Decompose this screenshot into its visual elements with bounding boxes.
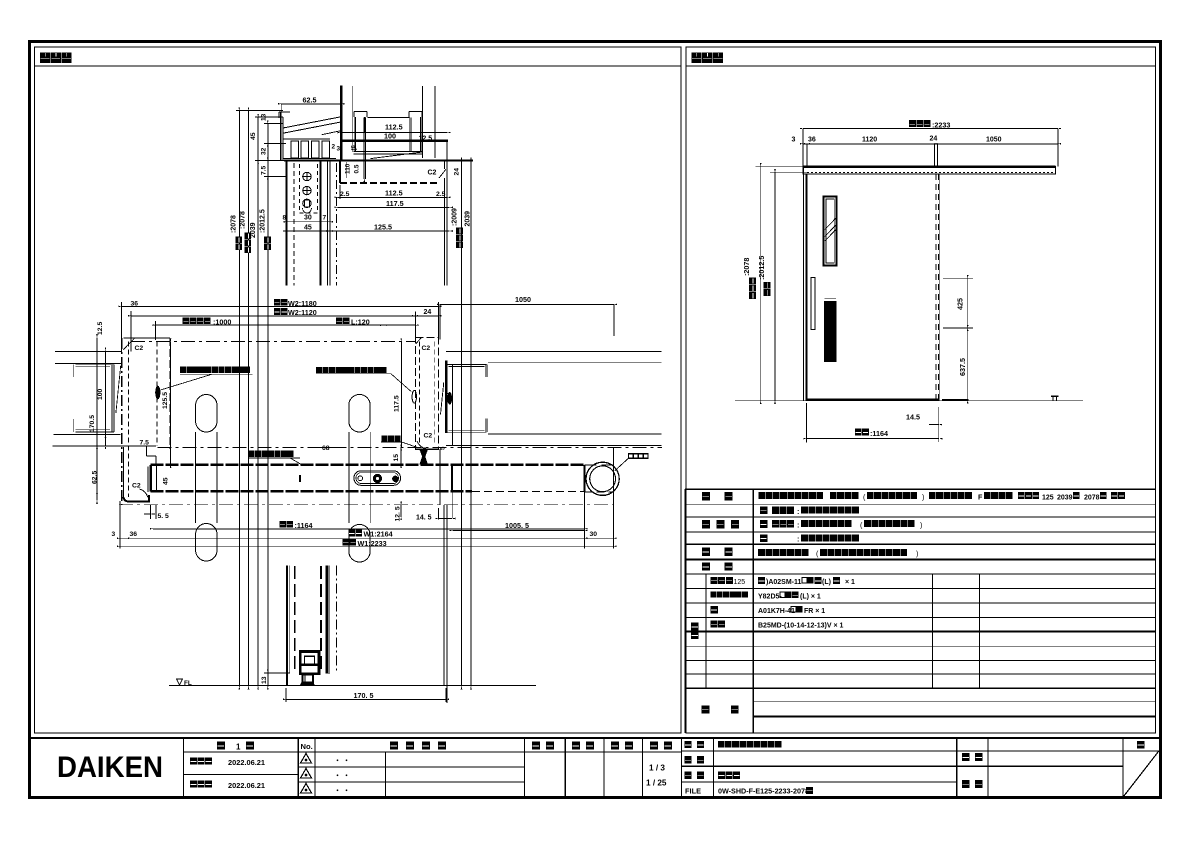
label 把手: [702, 548, 710, 556]
plan door band extension right: [585, 464, 614, 466]
plan bottom extensions: [119, 501, 121, 549]
elevation rail band: [803, 167, 1056, 175]
label 品番 vertical: [691, 623, 699, 631]
title block col dividers: [184, 738, 1124, 797]
plan hanging bolt oval A bottom: [196, 524, 217, 562]
svg-text::2009: :2009: [451, 208, 458, 226]
svg-text:1: 1: [236, 742, 241, 751]
left bracket top section: [280, 112, 282, 161]
svg-text:2022.06.21: 2022.06.21: [228, 758, 265, 767]
plan hanging bolt oval A top: [196, 395, 217, 433]
plan right wall lower: [488, 433, 662, 435]
svg-text::2012.5: :2012.5: [259, 209, 266, 233]
spec table label column divider: [752, 489, 754, 733]
wall stud line pair top: [340, 86, 342, 161]
svg-text:1005. 5: 1005. 5: [505, 521, 529, 530]
svg-text:110: 110: [344, 163, 351, 174]
elevation right dim 637.5: [967, 328, 969, 401]
svg-text:1 / 3: 1 / 3: [649, 764, 665, 773]
svg-text:3: 3: [337, 146, 341, 153]
plan left wall upper: [55, 351, 122, 353]
svg-text::2078: :2078: [742, 258, 751, 276]
plan right wall upper: [446, 350, 662, 352]
elevation dim 1164: [807, 438, 940, 440]
svg-text:1050: 1050: [515, 295, 531, 304]
elevation floor mark TT: [1051, 395, 1058, 397]
plan hanging bolt oval B bottom: [349, 525, 370, 563]
ceiling lines top right: [422, 86, 424, 158]
left panel border (section view): [35, 47, 682, 733]
label 承認: [532, 742, 540, 750]
kaitei sub divider: [385, 752, 387, 797]
svg-text:112.5: 112.5: [385, 123, 403, 132]
plan dashed opening line mid: [158, 447, 663, 449]
svg-text:8: 8: [283, 215, 287, 222]
plan dim opening chain: [156, 324, 416, 326]
svg-text:12.5: 12.5: [97, 322, 104, 335]
plan fix-screw cap label right: [316, 367, 386, 373]
svg-text:36: 36: [808, 137, 816, 144]
plan right C-stud: [448, 364, 487, 366]
top rail mount line thick: [341, 140, 448, 142]
bottom door guide: [300, 652, 319, 674]
plan dim 1164 line: [153, 528, 585, 530]
svg-text:125.5: 125.5: [374, 222, 392, 231]
svg-text:C2: C2: [135, 345, 144, 352]
hanger clip left: [354, 111, 367, 113]
svg-text:12.5: 12.5: [419, 135, 433, 142]
svg-text:B25MD-(10-14-12-13)V × 1: B25MD-(10-14-12-13)V × 1: [758, 622, 844, 629]
label 確認: [572, 742, 580, 750]
svg-text::2012.5: :2012.5: [757, 256, 766, 280]
left dim line 扉高2012.5: [267, 124, 269, 687]
svg-text:13: 13: [261, 676, 268, 684]
plan label 化粧見切: [248, 451, 293, 457]
content 扉パネル: [760, 507, 767, 515]
clip connecting line: [368, 117, 410, 119]
plan left frame rect: [121, 338, 123, 505]
svg-text:No.: No.: [301, 742, 313, 751]
left panel title 断面図: [40, 53, 72, 63]
svg-text::: :: [797, 535, 799, 544]
svg-text:36: 36: [130, 531, 138, 538]
svg-text:(L) × 1: (L) × 1: [800, 593, 821, 600]
label 固定枠125: [711, 577, 733, 584]
plan top extension lines: [120, 302, 122, 352]
label 適用: [702, 562, 710, 570]
wall face line top: [352, 86, 354, 152]
content 枠: [760, 534, 767, 542]
left dim line 全高2078: [238, 111, 240, 687]
svg-text:112.5: 112.5: [385, 188, 403, 197]
plan dim 2164 chain: [131, 537, 584, 539]
elevation door-open bottom line: [942, 399, 969, 401]
svg-text:): ): [920, 520, 922, 529]
hanger clip right: [409, 111, 422, 113]
right panel border (front view): [686, 47, 1156, 733]
plan dim 2233: [120, 545, 614, 547]
plan wall edge line crossing band: [451, 464, 453, 491]
label 件名: [962, 753, 970, 761]
label 制定日 + date: [190, 758, 212, 765]
svg-text:FL: FL: [184, 680, 192, 687]
plan left C-stud: [76, 364, 115, 366]
svg-text:2: 2: [332, 144, 336, 151]
spec table hinban narrow column: [705, 574, 707, 689]
svg-text::1164: :1164: [295, 521, 313, 530]
label 品番: [685, 756, 692, 763]
dim 24 right of box: [461, 161, 463, 183]
svg-text::1164: :1164: [870, 429, 888, 438]
elevation label 扉高2012.5: [764, 282, 771, 296]
elevation label 枠外高2078: [749, 278, 756, 299]
svg-text::2233: :2233: [932, 120, 950, 129]
svg-text:2022.06.21: 2022.06.21: [228, 781, 265, 790]
spec table left border: [684, 489, 686, 733]
rail right cap: [446, 141, 448, 161]
right panel header line: [686, 65, 1156, 67]
content 固定枠125 part: [758, 577, 765, 584]
elevation left dim 2078: [760, 166, 762, 401]
elevation dim 1164 extensions: [806, 403, 808, 443]
svg-text:117.5: 117.5: [393, 395, 400, 412]
screw symbols: [303, 172, 311, 180]
plan label 枠内W2 1120: [274, 308, 288, 315]
svg-text::2078: :2078: [230, 215, 237, 233]
label 名称: [685, 741, 692, 748]
svg-text:7.5: 7.5: [260, 166, 267, 175]
svg-text:7: 7: [323, 215, 327, 222]
svg-text:62.5: 62.5: [303, 95, 317, 104]
left panel header line: [35, 65, 682, 67]
svg-text:1050: 1050: [986, 137, 1002, 144]
floor line FL: [169, 685, 536, 687]
svg-text:(6: (6: [352, 145, 358, 151]
svg-text:24: 24: [930, 136, 938, 143]
svg-text:1 / 25: 1 / 25: [646, 779, 667, 788]
label 第1版: [217, 742, 225, 750]
svg-text:14. 5: 14. 5: [416, 515, 432, 522]
plan fix-screw cap label left: [180, 367, 250, 373]
content 要式 line: [759, 492, 823, 499]
svg-text:Y82D5-: Y82D5-: [758, 593, 782, 600]
door top box: [339, 161, 341, 183]
plan label 枠外W2 1180: [274, 299, 288, 306]
svg-text:5. 5: 5. 5: [158, 513, 170, 520]
svg-text::2078: :2078: [240, 211, 247, 229]
svg-text:7.5: 7.5: [140, 439, 150, 446]
plan detail circle: [586, 462, 619, 495]
svg-text:F: F: [978, 492, 983, 501]
ceiling slope board: [283, 117, 340, 128]
fixing plate hatch rects: [291, 141, 299, 158]
svg-text:45: 45: [163, 477, 170, 485]
plan label 戸先L120: [336, 317, 350, 324]
svg-text:2078: 2078: [1084, 494, 1100, 501]
label 引手: [711, 620, 726, 627]
svg-text:2039: 2039: [1057, 494, 1073, 501]
svg-text:100: 100: [384, 131, 396, 140]
svg-text:2039: 2039: [250, 222, 257, 238]
elevation left dim 2012.5: [774, 172, 776, 400]
plan mohair label: [382, 435, 401, 441]
label 改訂日 + date: [190, 781, 212, 788]
bottom centerline: [336, 566, 338, 673]
spec table hinban extra col 2: [978, 574, 980, 689]
FL mark: [177, 679, 183, 685]
svg-text:(L): (L): [822, 579, 831, 586]
svg-text:FILE: FILE: [685, 787, 701, 796]
elevation right dim 425: [967, 278, 969, 328]
label 作成: [611, 742, 619, 750]
svg-text:0W-SHD-F-E125-2233-2078-: 0W-SHD-F-E125-2233-2078-: [718, 787, 812, 796]
elevation black vent rect: [825, 297, 837, 299]
long top thick line: [284, 159, 473, 161]
svg-text:A01K7H-41: A01K7H-41: [758, 608, 795, 615]
revision triangles: [301, 754, 312, 764]
svg-text:L:120: L:120: [351, 317, 370, 326]
label 頁: [1137, 741, 1145, 749]
page diagonal: [1123, 751, 1159, 797]
dim 62.5: [281, 103, 341, 105]
plan door band: [151, 464, 585, 467]
elevation chain dim line: [803, 143, 1058, 145]
svg-text:・ ・: ・ ・: [334, 758, 350, 765]
plan dim 1050: [440, 303, 614, 305]
svg-text:68: 68: [322, 445, 330, 452]
content 扉採光部: [760, 520, 767, 528]
plan label 2164: [348, 530, 362, 537]
plan left dim ticks: [96, 334, 98, 337]
svg-text:W1:2233: W1:2233: [358, 539, 387, 548]
svg-text:30: 30: [304, 215, 312, 222]
svg-text:FR × 1: FR × 1: [804, 608, 825, 615]
svg-text:100: 100: [97, 388, 104, 400]
svg-text:170.5: 170.5: [89, 415, 96, 432]
svg-text:3: 3: [112, 531, 116, 538]
elevation dim 2233 line: [803, 128, 1058, 130]
svg-text:125.5: 125.5: [162, 392, 169, 409]
no-col row lines: [298, 766, 524, 768]
plan center dashdot line top: [131, 341, 416, 343]
plan label 有効開口1000: [183, 317, 211, 324]
fixed frame verticals below rail: [286, 161, 288, 286]
elevation left dim extensions: [756, 165, 804, 167]
tall dim line 2009: [461, 183, 463, 687]
screw surround dashed: [299, 164, 301, 213]
svg-text::: :: [797, 520, 799, 529]
svg-text:637.5: 637.5: [958, 358, 967, 376]
bottom right verticals: [443, 505, 445, 686]
dai1han row line: [184, 774, 299, 776]
label 仕上げ: [702, 520, 710, 528]
label 図名: [685, 772, 692, 779]
content 三面図: [718, 772, 740, 779]
plan dim 1180: [121, 305, 438, 307]
svg-text:12. 5: 12. 5: [395, 506, 402, 521]
elevation dim 2233 label: [909, 120, 930, 127]
spec table hinban extra col 1: [932, 574, 934, 689]
bottom door panel: [286, 566, 288, 687]
svg-text:1120: 1120: [862, 137, 877, 144]
label 扉: [711, 606, 718, 614]
right panel title 正面図: [692, 53, 724, 63]
svg-text:100: 100: [445, 392, 452, 404]
elevation window: [824, 197, 837, 266]
svg-text:C2: C2: [428, 170, 437, 177]
svg-text:30: 30: [590, 531, 598, 538]
label 要式: [702, 492, 710, 500]
label 備考: [702, 705, 710, 713]
svg-text:DAIKEN: DAIKEN: [57, 751, 163, 784]
svg-text:425: 425: [955, 298, 964, 310]
elevation handle bar: [811, 277, 815, 329]
plan detail label 引手詳細: [628, 453, 649, 459]
svg-text:W2:1180: W2:1180: [288, 299, 317, 308]
elevation floor line: [735, 400, 1083, 402]
svg-text:C2: C2: [424, 433, 433, 440]
left dim labels rotated: [235, 237, 242, 250]
plan right frame bottom thick: [416, 448, 439, 450]
svg-text:): ): [922, 492, 924, 501]
plan handle recess: [354, 471, 401, 486]
svg-text:0.5: 0.5: [354, 164, 361, 173]
svg-text::: :: [797, 507, 799, 516]
elevation label 扉幅1164: [855, 429, 869, 436]
svg-text:170. 5: 170. 5: [354, 691, 374, 700]
label 組員: [962, 780, 970, 788]
svg-text:24: 24: [424, 309, 432, 316]
svg-text:24: 24: [454, 168, 461, 176]
right rows: [682, 750, 1159, 752]
label 縮尺: [650, 742, 658, 750]
svg-text:62.5: 62.5: [92, 471, 99, 484]
svg-text:W1:2164: W1:2164: [364, 530, 393, 539]
label 枠内高2009: [456, 228, 463, 248]
svg-text:C2: C2: [132, 483, 141, 490]
svg-text:× 1: × 1: [845, 579, 855, 586]
svg-text:15: 15: [393, 454, 400, 462]
elevation door panel outline: [805, 174, 807, 400]
left dim line 2039: [257, 117, 259, 686]
label 改訂履歴: [390, 742, 398, 750]
elevation dim extension lines: [802, 129, 804, 167]
content 把手: [758, 549, 809, 556]
left dim cross ticks: [236, 110, 283, 112]
svg-text:・ ・: ・ ・: [334, 773, 350, 780]
svg-text:)A02SM-11: )A02SM-11: [766, 579, 802, 586]
svg-text:125: 125: [734, 579, 746, 586]
svg-text:3: 3: [792, 137, 796, 144]
svg-text:14.5: 14.5: [906, 413, 920, 422]
svg-text:C2: C2: [422, 345, 431, 352]
svg-text::1000: :1000: [213, 317, 231, 326]
elevation right dim extensions: [943, 277, 973, 279]
elevation door right dashed edge: [935, 174, 937, 400]
plan label 2233: [343, 539, 357, 546]
svg-text:117.5: 117.5: [386, 199, 404, 208]
plan dashed line below band: [119, 504, 614, 506]
svg-text:W2:1120: W2:1120: [288, 308, 317, 317]
rail bottom line: [354, 150, 423, 152]
svg-text:45: 45: [250, 132, 257, 140]
svg-text:2039: 2039: [465, 211, 472, 227]
svg-text:125: 125: [1042, 494, 1054, 501]
title header row line: [184, 751, 682, 753]
svg-text:32: 32: [260, 147, 267, 155]
tall dim line 2039: [470, 161, 472, 687]
spec table row lines: [685, 489, 1156, 716]
plan right frame rect: [416, 338, 439, 450]
plan dim 1120+24: [131, 315, 415, 317]
title block top line: [31, 737, 1159, 739]
svg-text:36: 36: [131, 300, 139, 307]
left dim line 枠高2078: [248, 111, 250, 687]
plan left frame chamfer C2 top: [123, 338, 134, 349]
plan hanging bolt oval B top: [349, 395, 370, 433]
plan left vert dim lines: [96, 337, 98, 500]
content おもいやりシリーズ: [718, 741, 782, 748]
svg-text:): ): [916, 549, 918, 558]
plan left wall lower: [53, 433, 120, 435]
plan left frame bottom J: [123, 447, 125, 497]
label レールセット: [711, 591, 748, 597]
svg-text:45: 45: [304, 224, 312, 231]
elevation door frame left line: [803, 166, 805, 400]
svg-text:・ ・: ・ ・: [334, 788, 350, 795]
dim 112.5 top: [341, 132, 448, 134]
